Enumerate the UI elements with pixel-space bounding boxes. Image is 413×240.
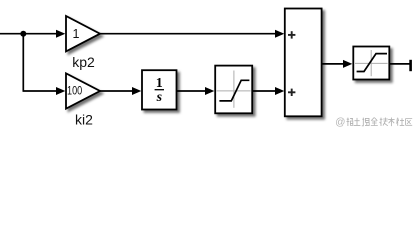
saturation1 block bbox=[215, 66, 252, 114]
svg-text:1: 1 bbox=[73, 27, 80, 41]
gain ki2 bbox=[66, 73, 100, 108]
svg-text:kp2: kp2 bbox=[72, 54, 95, 70]
wire integrator to saturation1 bbox=[177, 87, 215, 95]
node junction bbox=[20, 31, 26, 37]
wire branch down bbox=[22, 34, 24, 91]
plus bottom bbox=[288, 89, 295, 96]
saturation2 block bbox=[353, 47, 389, 80]
svg-text:s: s bbox=[156, 90, 163, 105]
sat2 gray axes bbox=[370, 50, 372, 76]
wire saturation2 to output bbox=[389, 63, 410, 65]
sat2 curve bbox=[357, 54, 387, 72]
sat1 gray axes bbox=[233, 71, 235, 108]
wire ki2 to integrator bbox=[100, 87, 141, 95]
gain kp2 bbox=[66, 16, 100, 51]
wire sum to saturation2 bbox=[322, 60, 353, 68]
watermark glyphs (CJK approximation) bbox=[347, 118, 413, 127]
wire kp2 to sum bbox=[100, 30, 284, 38]
integrator U1 1/s bbox=[142, 70, 177, 109]
sat1 curve bbox=[219, 80, 249, 101]
wire to ki2 bbox=[23, 87, 66, 95]
svg-text:100: 100 bbox=[67, 84, 82, 98]
svg-text:1: 1 bbox=[156, 76, 163, 91]
output terminal bar bbox=[409, 60, 412, 71]
svg-text:@: @ bbox=[335, 117, 345, 128]
sum block bbox=[285, 9, 322, 117]
svg-text:ki2: ki2 bbox=[75, 112, 93, 128]
wire input main bbox=[0, 30, 65, 38]
wire saturation1 to sum bbox=[252, 87, 284, 95]
plus top bbox=[288, 31, 295, 38]
